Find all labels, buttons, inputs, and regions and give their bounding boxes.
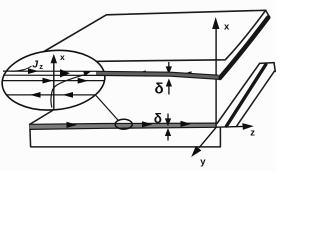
row 1 arrowhead right (large) <box>60 69 70 77</box>
row 2 arrowhead right <box>78 78 89 84</box>
current arrow on lower strip (left) <box>67 122 78 128</box>
svg-text:x: x <box>224 21 230 32</box>
right edge of top face <box>217 63 260 123</box>
row 3 arrowhead right <box>63 92 74 98</box>
svg-text:δ: δ <box>154 111 162 126</box>
left edge going behind ellipse <box>30 111 53 125</box>
skin depth arrows lower <box>166 114 170 141</box>
lower plate surface current strip <box>30 123 217 129</box>
back edge segment <box>260 62 274 65</box>
row 3 arrowhead left <box>30 92 41 98</box>
svg-text:δ: δ <box>155 81 164 98</box>
big ellipse magnifier <box>0 46 107 114</box>
row 3 current line (reversed) <box>7 94 96 96</box>
magnified x axis inside ellipse <box>52 56 57 110</box>
z axis <box>216 124 251 129</box>
decay curve arrowhead <box>83 71 91 76</box>
row 1 arrowhead left <box>28 68 39 74</box>
current arrow on upper band (right) <box>181 71 192 77</box>
svg-text:y: y <box>200 156 206 167</box>
upper plate right side dark band <box>220 18 268 79</box>
row 2 current line <box>3 80 104 82</box>
svg-text:x: x <box>60 52 65 62</box>
x axis <box>213 20 218 128</box>
lower plate front face <box>30 124 221 146</box>
skin depth arrows upper <box>167 62 172 95</box>
leader line from big ellipse to small ellipse <box>96 96 118 121</box>
current arrow on upper band (left) <box>135 70 146 76</box>
decay curve <box>51 75 85 108</box>
upper plate inner-surface current band <box>96 71 219 79</box>
current arrow on lower strip (middle) <box>142 121 153 127</box>
row 2 arrowhead left <box>43 78 54 84</box>
lower plate right side dark band <box>227 65 266 127</box>
far right top-face edge <box>237 71 274 125</box>
lower plate top face visible edges <box>30 63 276 126</box>
svg-text:z: z <box>250 127 255 138</box>
small ellipse magnifier source <box>115 119 132 129</box>
band top boundary line <box>3 71 219 75</box>
band bottom boundary line <box>3 75 219 79</box>
y axis <box>193 127 216 155</box>
svg-text:z: z <box>39 62 43 71</box>
upper plate top face <box>44 10 266 61</box>
far corner bevel <box>274 63 275 72</box>
J_z leader curve <box>12 66 32 71</box>
upper plate corner bevel <box>266 10 270 17</box>
current arrow on lower strip (right) <box>181 121 192 127</box>
